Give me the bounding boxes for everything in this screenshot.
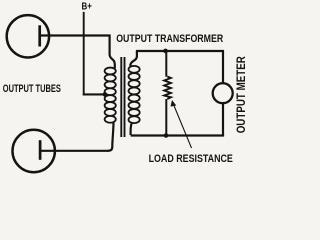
wire: right branch down to output meter xyxy=(222,50,224,83)
node B+ supply line xyxy=(83,12,85,95)
wire: top rail to load resistor xyxy=(165,51,167,77)
wire: top rail (secondary to meter branch) xyxy=(136,50,223,52)
wire: V1 plate to output transformer primary top xyxy=(40,36,115,69)
wire: V2 plate to transformer primary bottom xyxy=(40,150,108,152)
wire: B+ to primary center tap xyxy=(84,93,105,94)
output tube V1 (top left) xyxy=(7,15,49,57)
transformer T1 core xyxy=(121,57,124,137)
junction: resistor bottom dot xyxy=(164,133,169,138)
svg-text:OUTPUT METER: OUTPUT METER xyxy=(235,56,248,133)
junction: resistor top dot xyxy=(163,49,168,54)
resistor R1 load resistance zigzag xyxy=(164,77,171,100)
wire: meter bottom to bottom rail xyxy=(222,103,224,135)
wire: secondary bottom lead xyxy=(131,123,132,135)
transformer T1 secondary winding xyxy=(129,66,140,123)
wire: secondary top lead to load top rail xyxy=(130,51,137,66)
junction: primary center tap dot xyxy=(103,92,108,97)
wire: bottom rail (secondary bottom to meter branch) xyxy=(131,134,225,136)
svg-text:LOAD RESISTANCE: LOAD RESISTANCE xyxy=(149,153,234,165)
output meter M1 xyxy=(213,83,233,103)
wire: load resistor to bottom rail xyxy=(165,99,167,136)
svg-text:B+: B+ xyxy=(81,1,91,12)
wire: primary bottom lead xyxy=(108,123,114,151)
output tube V2 (bottom left) xyxy=(13,130,55,172)
svg-text:OUTPUT TRANSFORMER: OUTPUT TRANSFORMER xyxy=(116,33,223,45)
svg-text:OUTPUT TUBES: OUTPUT TUBES xyxy=(3,83,61,95)
transformer T1 primary winding xyxy=(105,68,116,123)
label pointer arrow to load resistance xyxy=(171,100,192,148)
